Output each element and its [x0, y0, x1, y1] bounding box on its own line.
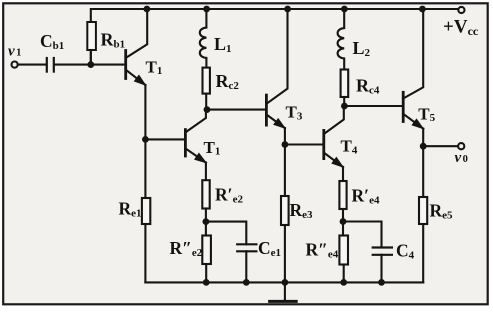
capacitor Cb1 — [47, 58, 54, 72]
node junction C4 on rail — [378, 279, 385, 286]
wire T1 emitter node to T2 base — [145, 138, 185, 140]
node junction R''e4 on rail — [340, 279, 347, 286]
wire node to v0 — [423, 145, 458, 147]
node junction Rb1/base — [87, 61, 94, 68]
wire Re3 branch — [284, 145, 286, 283]
ground — [270, 282, 297, 301]
terminal +Vcc circle — [458, 7, 464, 13]
transistor T5 — [403, 9, 423, 146]
node junction T5 emitter/Re5/v0 — [420, 143, 427, 150]
node junction Rc2/T2 collector/T3 base — [204, 106, 211, 113]
node junction T1 emitter/Re1/T2 base — [142, 136, 149, 143]
node junction R''e2 on rail — [203, 279, 210, 286]
wire +Vcc top rail — [91, 9, 458, 65]
capacitor C4 — [373, 248, 392, 255]
wire C4 bottom — [380, 255, 382, 283]
node junction Re3/ground on rail — [282, 279, 289, 286]
resistor R''e2 — [202, 236, 211, 265]
wire node to Ce1 branch — [206, 222, 246, 245]
node junction R'e4/R''e4/C4 — [340, 218, 347, 225]
resistor Rb1 — [87, 22, 96, 50]
node junction L1 on rail — [203, 6, 210, 13]
wire R''e2 top/bottom — [205, 222, 207, 283]
wire ground rail (bottom) — [145, 281, 423, 283]
wire R''e4 top/bottom — [342, 222, 345, 283]
node junction T5 collector on rail — [419, 6, 426, 13]
terminal v0 circle — [458, 143, 464, 149]
wire v1 to Cb1 — [18, 64, 46, 66]
inductor L2 — [338, 9, 345, 70]
resistor R'e4 — [339, 181, 346, 209]
node junction T3 emitter/Re3/T4 base — [282, 141, 289, 148]
resistor Re3 — [281, 196, 289, 225]
wire node to T5 base — [344, 105, 403, 107]
resistor Re1 — [142, 198, 150, 224]
resistor R'e2 — [202, 180, 209, 208]
wire Re5 branch — [422, 146, 424, 282]
wire Rc2 bottom to node — [205, 94, 207, 110]
wire Ce1 bottom — [245, 251, 247, 282]
wire node to T4 base — [285, 143, 324, 145]
node junction R'e2/R''e2/Ce1 — [203, 218, 210, 225]
node junction Rc4/T4 collector/T5 base — [341, 103, 348, 110]
node junction T1 collector on rail — [144, 6, 151, 13]
capacitor Ce1 — [237, 244, 256, 251]
wire Cb1 to T1 base (node at Rb1 bottom) — [55, 64, 126, 66]
wire R'e2 to node — [205, 209, 207, 222]
node junction Ce1 on rail — [243, 279, 250, 286]
wire Re1 branch — [144, 139, 146, 282]
inductor L1 — [200, 9, 207, 68]
transistor T3 — [266, 9, 287, 145]
transistor T2 (second, labelled T1) — [185, 110, 206, 181]
resistor Rc4 — [341, 70, 349, 98]
resistor Re5 — [419, 197, 427, 224]
wire node to T3 base — [206, 109, 266, 111]
node junction T3 collector on rail — [284, 6, 291, 13]
wire R'e4 to node — [342, 209, 344, 222]
resistor R''e4 — [339, 236, 348, 265]
node junction L2 on rail — [341, 6, 348, 13]
resistor Rc2 — [203, 68, 210, 94]
transistor T4 — [324, 106, 344, 181]
wire Rb1 bottom — [90, 50, 92, 65]
wire Rc4 bottom to node — [343, 97, 345, 106]
wire node to C4 branch — [343, 222, 382, 248]
transistor T1 (first stage) — [126, 9, 148, 139]
terminal v1 input circle — [12, 62, 18, 68]
